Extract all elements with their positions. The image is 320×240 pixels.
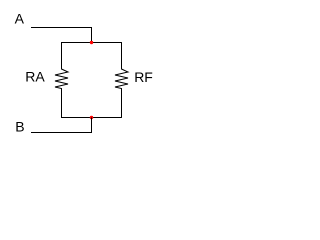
wire B horizontal xyxy=(31,132,92,134)
resistor RF xyxy=(115,43,128,118)
svg-text:RF: RF xyxy=(134,69,153,85)
wire bottom rail xyxy=(61,117,122,119)
resistor RA xyxy=(55,43,68,118)
svg-text:B: B xyxy=(15,118,24,134)
svg-text:RA: RA xyxy=(25,69,45,85)
wire B vertical rise xyxy=(91,118,93,134)
node junction top (red dot) xyxy=(90,41,93,44)
wire A vertical drop xyxy=(91,27,93,43)
wire A horizontal xyxy=(31,27,92,29)
node junction bottom (red dot) xyxy=(90,116,93,119)
wire top rail xyxy=(61,42,122,44)
svg-text:A: A xyxy=(15,11,25,27)
